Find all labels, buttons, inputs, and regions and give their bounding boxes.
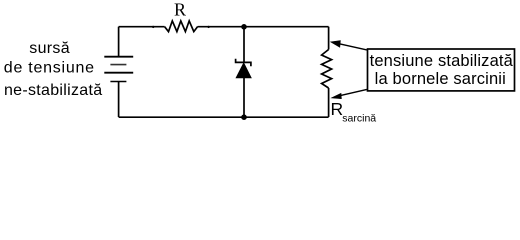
svg-text:de tensiune: de tensiune — [4, 60, 95, 77]
wire zener top lead — [243, 27, 245, 63]
node B (bottom junction dot) — [241, 114, 247, 120]
arrow lower head — [332, 93, 342, 98]
resistor R (series) zigzag — [165, 21, 198, 32]
battery B1 plate 4 (short) — [110, 81, 126, 83]
wire right side bottom (to rail) — [328, 88, 330, 117]
svg-text:la bornele sarcinii: la bornele sarcinii — [375, 70, 506, 88]
svg-text:sursă: sursă — [29, 40, 70, 57]
resistor Rsarcina (load) vertical zigzag — [322, 50, 332, 89]
zener diode D1 cathode bar with bent wings — [236, 59, 251, 67]
wire top rail right segment — [198, 26, 329, 28]
arrow upper head — [331, 41, 341, 48]
zener diode D1 anode triangle — [236, 63, 251, 78]
battery B1 plate 3 (long) — [104, 72, 133, 74]
battery B1 plate 1 (long) — [104, 56, 133, 58]
arrow upper shaft — [336, 43, 367, 50]
battery B1 top lead wire — [118, 27, 120, 56]
wire bottom rail — [119, 116, 329, 118]
svg-text:tensiune stabilizată: tensiune stabilizată — [370, 52, 514, 70]
wire zener bottom lead — [243, 78, 245, 117]
arrow lower shaft — [336, 89, 367, 96]
callout box — [368, 49, 515, 91]
node A (top junction dot) — [241, 24, 247, 30]
battery B1 bottom lead wire — [118, 82, 120, 118]
battery B1 plate 2 (short) — [110, 64, 126, 66]
wire joint tick right — [207, 26, 209, 28]
wire joint tick left — [152, 26, 154, 28]
svg-text:sarcină: sarcină — [342, 113, 376, 125]
wire top rail left segment — [119, 26, 165, 28]
svg-text:ne-stabilizată: ne-stabilizată — [4, 82, 102, 99]
svg-text:R: R — [331, 99, 344, 119]
svg-text:R: R — [174, 0, 186, 20]
wire right side top (down from rail) — [328, 27, 330, 50]
